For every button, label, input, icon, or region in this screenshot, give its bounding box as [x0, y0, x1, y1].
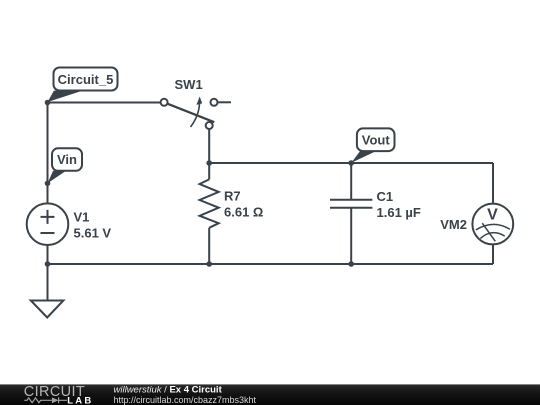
- svg-text:1.61 µF: 1.61 µF: [377, 205, 421, 220]
- svg-text:5.61 V: 5.61 V: [74, 226, 112, 241]
- svg-text:http://circuitlab.com/cbazz7mb: http://circuitlab.com/cbazz7mbs3kht: [114, 395, 257, 405]
- junction dot: R7 bottom: [206, 261, 212, 267]
- svg-text:V: V: [487, 207, 498, 224]
- wire: unused throw stub of SW1: [218, 101, 232, 103]
- wire: top Vout rail horizontal: [209, 162, 493, 164]
- svg-text:C1: C1: [377, 189, 394, 204]
- wire: V1 bottom down to ground: [47, 245, 49, 301]
- switch SW1: [161, 97, 218, 130]
- svg-text:6.61 Ω: 6.61 Ω: [224, 205, 263, 220]
- svg-text:VM2: VM2: [440, 217, 467, 232]
- wire: top-left horizontal, node Circuit_5 to SW1 pole: [48, 102, 161, 104]
- svg-text:SW1: SW1: [175, 77, 203, 92]
- svg-text:Vin: Vin: [57, 152, 77, 167]
- node label Vin flag: [48, 148, 82, 183]
- CircuitLab logo: resistor-diode squiggle: [24, 397, 67, 403]
- wire: SW1 throw down to Vout rail: [208, 129, 210, 163]
- junction dot: C1 bottom: [348, 261, 354, 267]
- svg-text:R7: R7: [224, 189, 241, 204]
- voltmeter VM2: [472, 204, 513, 245]
- svg-text:LAB: LAB: [67, 395, 93, 405]
- junction dot: ground tee: [45, 261, 51, 267]
- node label Circuit_5 flag: [48, 68, 118, 103]
- ground: [31, 301, 64, 318]
- junction dot: R7 top: [206, 160, 212, 166]
- svg-text:willwerstiuk / Ex 4 Circuit: willwerstiuk / Ex 4 Circuit: [114, 385, 223, 396]
- svg-text:Circuit_5: Circuit_5: [58, 72, 114, 87]
- node label Vout flag: [351, 128, 394, 162]
- wire: right column bottom, rail up to VM2 bottom: [492, 244, 494, 264]
- svg-text:V1: V1: [74, 210, 90, 225]
- node Vout junction dot (C1 top): [348, 160, 354, 166]
- svg-text:Vout: Vout: [362, 133, 391, 148]
- node Circuit_5 junction dot: [45, 100, 51, 106]
- node Vin junction dot: [45, 181, 51, 187]
- capacitor C1: [330, 163, 372, 264]
- wire: left vertical, node Circuit_5 down to V1 top: [47, 103, 49, 204]
- voltage source V1: [27, 203, 69, 245]
- resistor R7: [200, 163, 219, 264]
- wire: right column top, rail down to VM2 top: [492, 163, 494, 204]
- footer bar: [0, 384, 540, 405]
- wire: bottom ground rail: [48, 263, 494, 265]
